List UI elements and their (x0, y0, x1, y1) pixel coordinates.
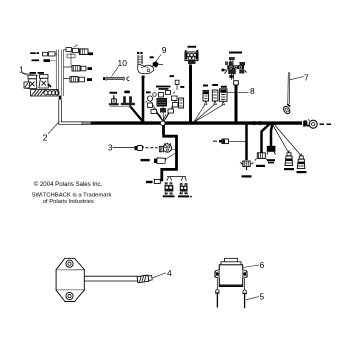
callout 9 (156, 45, 167, 62)
connector: solenoid L (item 1) (25, 75, 37, 88)
label: fan connector C side caption (229, 75, 233, 78)
wire: relay branch vertical (142, 76, 145, 123)
label: left row 2 text (32, 59, 40, 61)
wire: left fan from junction (151, 99, 177, 122)
label: fan connector B caption (212, 84, 218, 86)
label: tree T1 caption (284, 168, 294, 170)
svg-text:of Polaris Industries: of Polaris Industries (43, 199, 94, 205)
wire: item 3 dashed segment (146, 147, 158, 149)
label: tree T2 caption (297, 171, 307, 173)
label: cluster left small (146, 91, 151, 93)
bracket: cdi right mount (243, 270, 248, 279)
wire: thin fan to tree connector T2 (274, 124, 302, 156)
connector: bracket left of solenoids (24, 82, 30, 88)
conduit: braided sleeve section (31, 90, 60, 96)
callout 10 (112, 58, 128, 77)
text: copyright line 3 (43, 199, 94, 205)
svg-text:3: 3 (108, 144, 113, 153)
callout 1 (19, 65, 38, 77)
svg-text:2: 2 (43, 132, 48, 142)
connector: item8 branch stub plug (234, 81, 239, 85)
wire: main harness trunk left hollow tube (59, 96, 91, 125)
connector: branch B end plug (255, 153, 268, 161)
label: lower stub caption (146, 181, 153, 183)
connector: solenoid R (item 1) (39, 75, 51, 88)
label: right row 1 (89, 52, 94, 55)
bolt: cdi left (item 5) (215, 279, 219, 308)
label: left row 1 text (30, 52, 39, 54)
connector: round plug mid (159, 143, 176, 152)
label: small stub right of step branch (213, 140, 224, 143)
bracket: cdi left mount (215, 270, 220, 279)
connector: cluster right plug (179, 98, 184, 108)
label: right row 4 (87, 78, 92, 81)
callout 3 (108, 144, 135, 153)
text: copyright line 1 (34, 181, 103, 188)
label: branch C caption (267, 159, 275, 163)
svg-text:6: 6 (260, 260, 265, 270)
wire: fuel sensor diagonal branch (130, 106, 145, 124)
connector: item 10 jumper cable (103, 77, 129, 81)
wire: thin fan to tree connector T1 (272, 124, 289, 153)
connector: branch A end plug (240, 161, 254, 170)
label: right row 3 (88, 67, 93, 70)
connector: junction cluster components (146, 75, 181, 120)
label: branch A caption (242, 175, 252, 177)
label: coil L wire color (30, 72, 37, 74)
wire: regulator lead (84, 276, 137, 281)
label: center connector caption (188, 46, 197, 48)
label: fan connector A caption (203, 85, 208, 87)
cdi: item 6 module (219, 258, 242, 286)
callout 4 (153, 268, 173, 278)
wire: main harness trunk solid (91, 121, 302, 124)
cable tie: item 7 (282, 72, 291, 115)
connector: fan plug B (212, 90, 218, 105)
label: fan connector C caption (221, 86, 227, 88)
text: copyright line 2 (32, 192, 112, 198)
connector: tree plug T1 (285, 150, 293, 165)
conduit: left harness sleeve double lines (56, 50, 63, 97)
connector: item 3 inline plug (135, 146, 145, 151)
regulator: item 4 body (56, 258, 84, 301)
wire: right fan from junction (194, 105, 224, 123)
callout 5 (246, 292, 265, 302)
wire: right branch B (262, 124, 271, 153)
wire: dashed continuation at end (320, 123, 332, 125)
svg-text:© 2004 Polaris Sales Inc.: © 2004 Polaris Sales Inc. (34, 181, 103, 188)
connector: fan plug A (203, 91, 209, 105)
callout 8 (238, 86, 255, 96)
connector: branch C end plug (267, 146, 276, 155)
lamp: taillight socket right (180, 184, 188, 194)
connector: tree plug T2 (297, 154, 305, 169)
lamp: taillight socket left (165, 183, 174, 194)
callout 6 (243, 260, 265, 270)
wire: center connector branch vertical (189, 65, 192, 124)
callout 2 (43, 122, 60, 143)
connector: fuel pump plug left (109, 92, 119, 106)
connector: mid stub plug (154, 152, 177, 163)
connector: right row 1 assembly (64, 45, 89, 54)
connector: left feed plug of branch A (222, 139, 246, 144)
connector: left row 1 plug (43, 52, 58, 56)
connector: harness end ring terminal (303, 120, 317, 129)
svg-text:5: 5 (260, 292, 265, 302)
connector: relay with mounting bracket (137, 52, 154, 74)
connector: left row 2 plug (44, 59, 57, 62)
wire: right branch C (271, 124, 273, 147)
bolt: cdi right (item 5) (243, 279, 247, 309)
label: sensor wire color (150, 56, 154, 58)
junction ticks right pair (252, 121, 260, 125)
label: branch B caption (256, 165, 265, 167)
connector: speed sensor (item 9 target) (150, 61, 163, 68)
svg-text:8: 8 (250, 86, 255, 96)
junction node circle at left fan (160, 121, 165, 126)
connector: main bulkhead connector (center) (185, 50, 199, 65)
connector: fuel pump plug pair (110, 91, 135, 107)
svg-text:SWITCHBACK is a Trademark: SWITCHBACK is a Trademark (32, 192, 112, 198)
label: main junction cluster caption (156, 86, 171, 90)
svg-text:4: 4 (167, 268, 172, 278)
svg-text:7: 7 (304, 73, 309, 83)
connector: cluster top stub (175, 80, 184, 90)
label: item8 connector caption (229, 52, 242, 54)
connector: lower stub plug (154, 179, 160, 183)
connector: regulator plug (137, 275, 152, 283)
connector: right row 2 small plug (67, 52, 75, 66)
label: coil R wire color (38, 72, 45, 74)
svg-text:9: 9 (162, 45, 167, 55)
connector: right row 4 assembly (64, 77, 85, 82)
label: mid connector caption (141, 159, 150, 161)
label: taillight left caption (163, 195, 175, 197)
connector: accessory connector (item 8) (222, 57, 247, 80)
wire: taillight step-down branch (162, 123, 178, 181)
label: taillight right caption (178, 195, 192, 197)
wire: taillight distribution (167, 177, 187, 181)
connector: right row 3 assembly (64, 66, 87, 71)
wire: right branch A vertical (245, 123, 248, 160)
callout 7 (290, 73, 309, 83)
svg-text:10: 10 (118, 58, 128, 68)
connector: fan plug C (220, 89, 236, 105)
junction ticks left pair (146, 121, 153, 125)
wire: item8 connector branch vertical (235, 85, 238, 124)
